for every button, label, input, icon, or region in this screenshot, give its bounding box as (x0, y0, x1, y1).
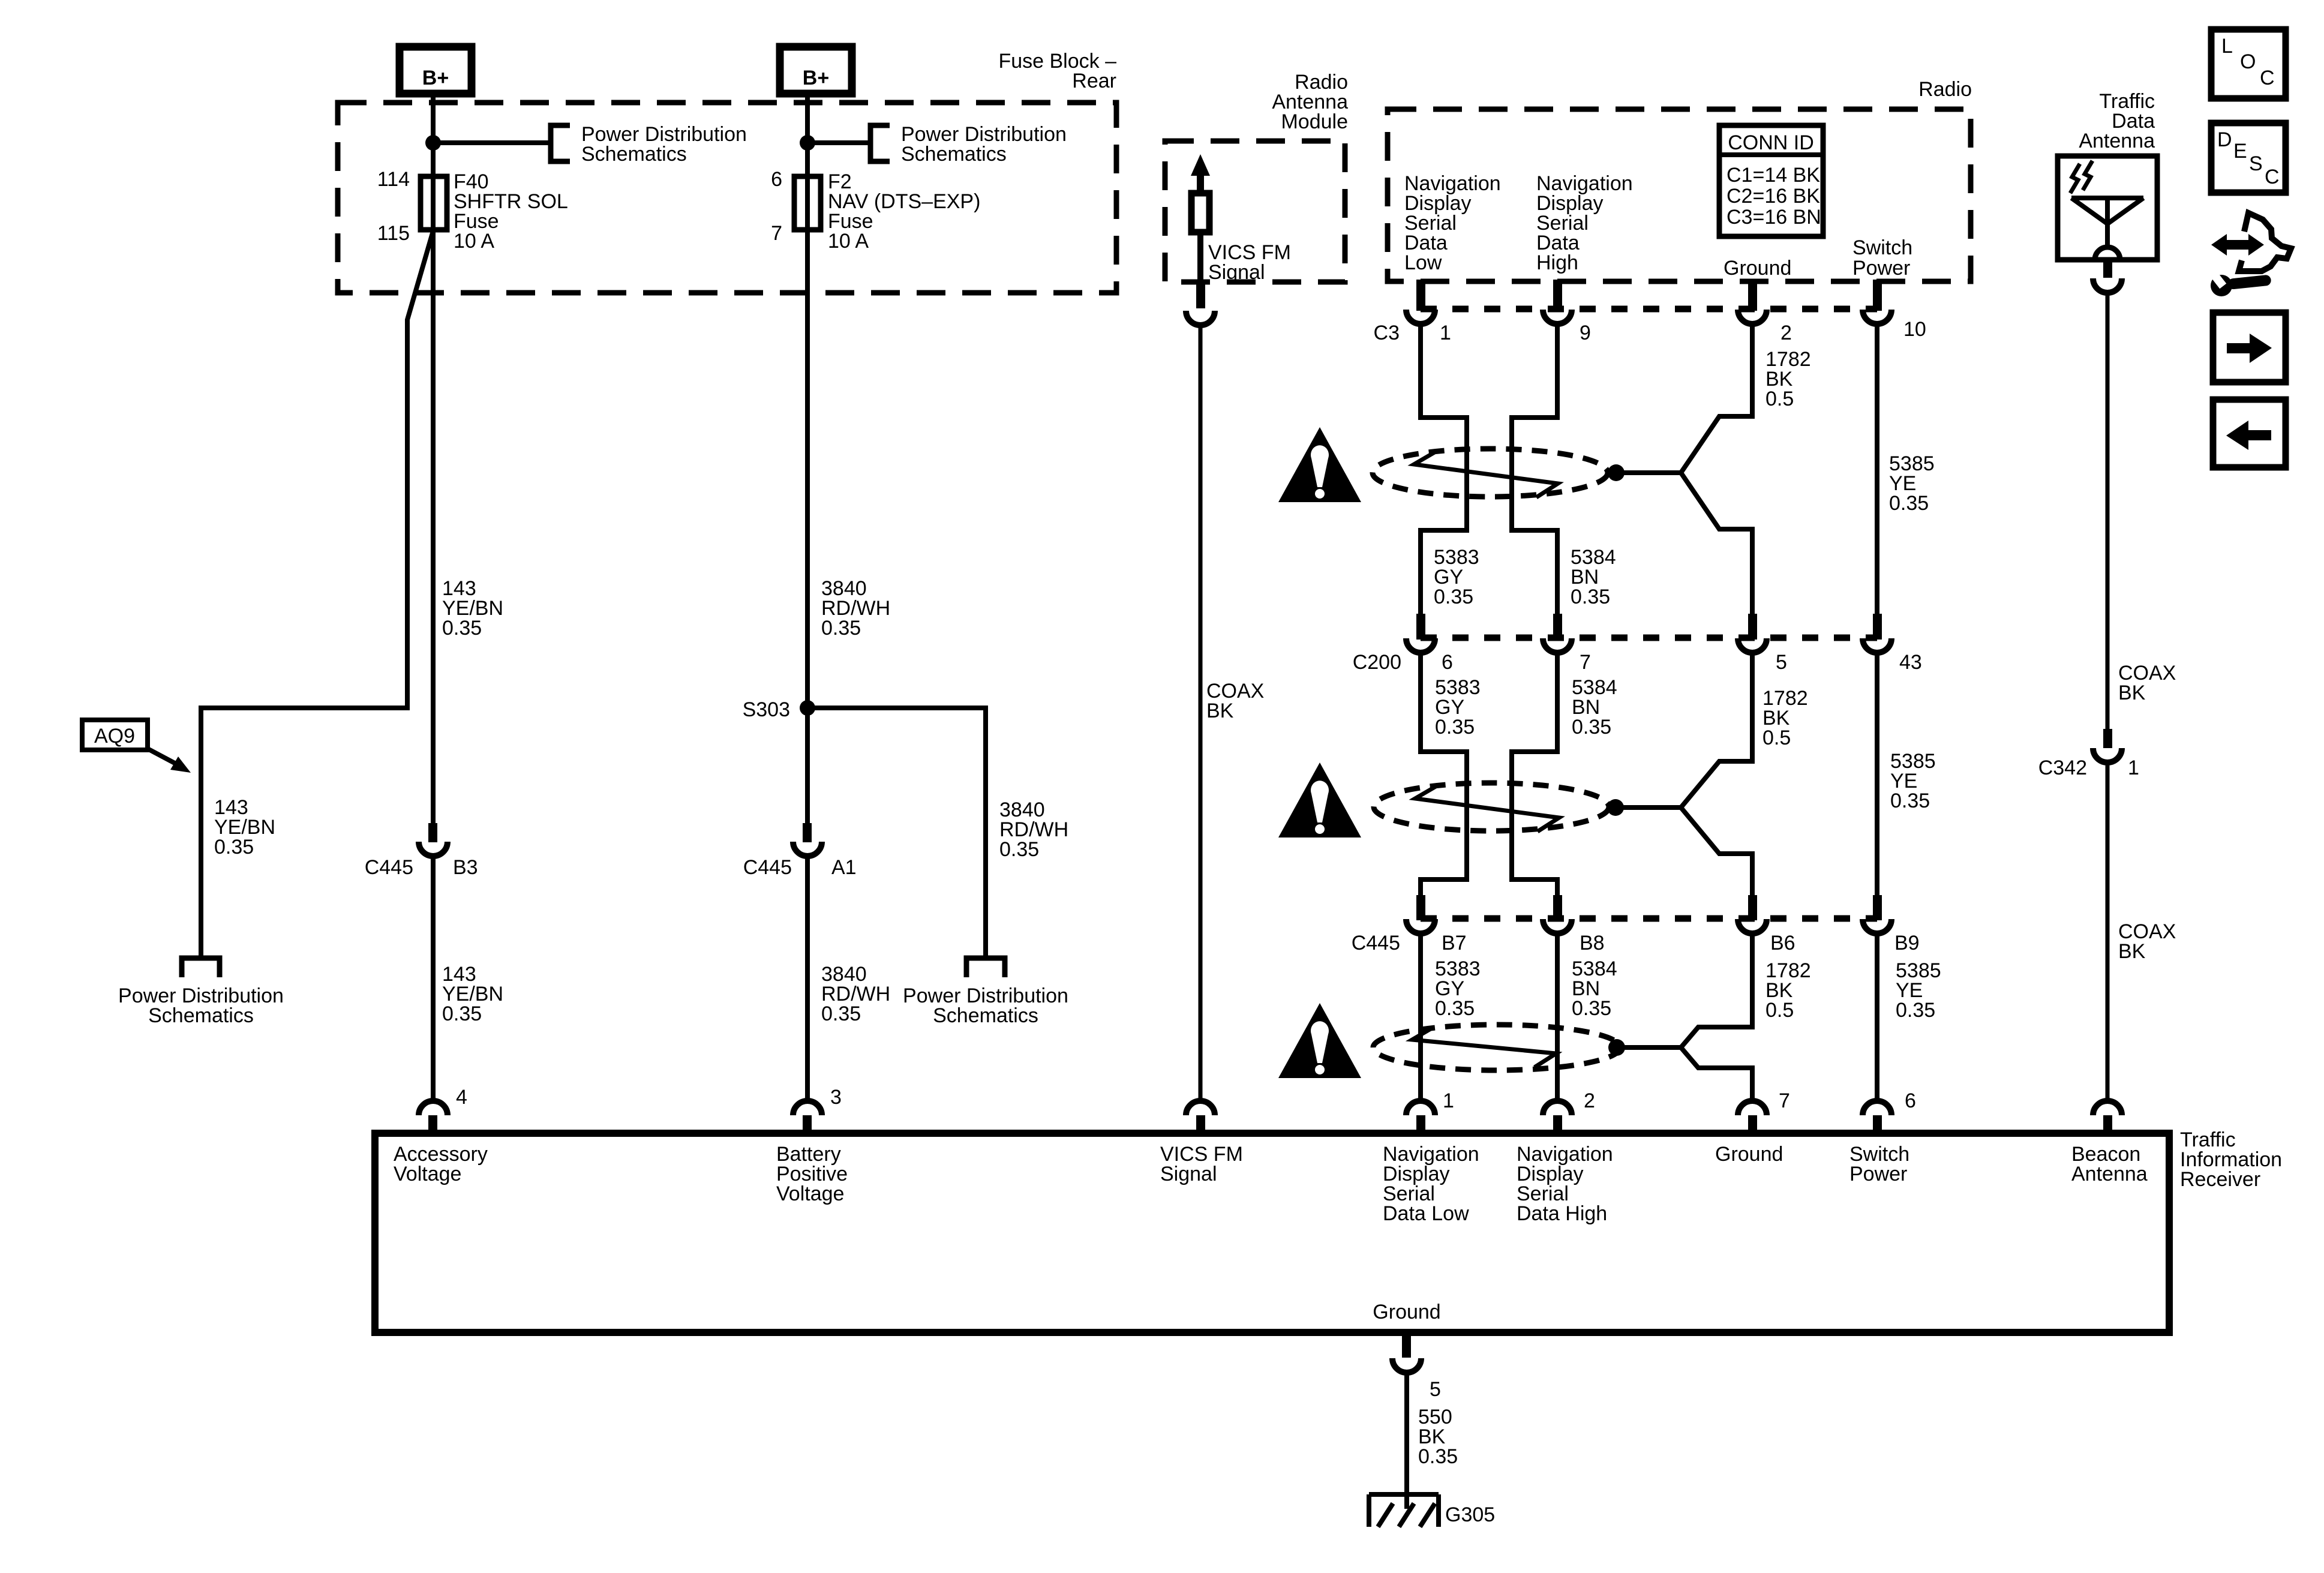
svg-text:C1=14 BK: C1=14 BK (1727, 164, 1820, 187)
wire label 5384 BN 0.35 (row 3) (1572, 957, 1617, 1020)
wire COAX BK vics fm signal (1199, 325, 1203, 1101)
wire 5385 YE C200 pin43 to C445 (1875, 653, 1879, 900)
wire COAX BK antenna to C342 (2106, 293, 2110, 729)
wire label 3840 RD/WH 0.35 (S303 branch) (999, 798, 1068, 861)
wire 5384 BN C200 pin7 to C445 (twisted) (1512, 653, 1557, 900)
svg-text:C: C (2260, 67, 2275, 89)
svg-text:7: 7 (771, 222, 782, 245)
wire label COAX BK (vics) (1206, 680, 1264, 722)
svg-text:0.5: 0.5 (1765, 388, 1794, 410)
svg-text:Ground: Ground (1724, 257, 1791, 280)
antenna signal source arrow inside module (1191, 154, 1210, 282)
svg-text:B3: B3 (453, 856, 478, 879)
svg-text:CONN ID: CONN ID (1728, 131, 1814, 154)
svg-text:Rear: Rear (1072, 70, 1116, 92)
svg-text:Radio: Radio (1918, 78, 1972, 101)
svg-text:0.5: 0.5 (1765, 999, 1794, 1022)
icon harness routing with double arrow (2211, 213, 2291, 271)
off-page bracket power distribution (AQ9 branch) (182, 958, 220, 977)
off-page bracket power distribution (S303 branch) (966, 958, 1005, 977)
junction node on B+2 feed (800, 135, 815, 151)
svg-text:1: 1 (1440, 322, 1451, 344)
svg-text:Schematics: Schematics (901, 143, 1007, 166)
node AQ9 callout box (82, 720, 191, 773)
svg-text:0.35: 0.35 (1890, 789, 1930, 812)
wire 1782 BK radio pin2 to C200 with shield drain (1681, 324, 1752, 620)
off-page bracket power distribution 2 (870, 125, 890, 161)
wire label 5383 GY 0.35 (row 1) (1434, 546, 1479, 608)
twisted pair shield ellipse 2 (1374, 783, 1609, 831)
svg-text:S303: S303 (743, 698, 790, 721)
svg-text:6: 6 (771, 168, 782, 191)
wire 3840 RD/WH C445 to receiver pin 3 (805, 856, 810, 1101)
svg-text:6: 6 (1905, 1089, 1916, 1112)
wire 143 YE/BN C445 to receiver pin 4 (431, 856, 436, 1101)
svg-text:C445: C445 (743, 856, 792, 879)
splice dot on shield 3 (1608, 1039, 1625, 1056)
svg-text:Signal: Signal (1208, 261, 1265, 284)
svg-text:Low: Low (1404, 251, 1442, 274)
wire label COAX BK (upper) (2118, 662, 2176, 704)
svg-text:10: 10 (1903, 318, 1926, 341)
wire label 143 YE/BN 0.35 (lower) (442, 963, 503, 1025)
splice S303 (800, 700, 815, 716)
icon wrench (2207, 268, 2271, 296)
label Radio Antenna Module (1272, 71, 1348, 133)
svg-text:0.35: 0.35 (1571, 586, 1610, 608)
wire label 1782 BK 0.5 (upper) (1765, 348, 1811, 410)
svg-text:B+: B+ (422, 67, 449, 89)
svg-text:S: S (2249, 152, 2263, 175)
receiver pin 6 terminal (1863, 1089, 1916, 1133)
svg-text:3: 3 (830, 1086, 842, 1109)
svg-text:Antenna: Antenna (2071, 1163, 2148, 1185)
wire label 5385 YE 0.35 (row 3) (1896, 959, 1941, 1022)
wire 5383 GY C445 B7 to receiver pin 1 (1418, 933, 1423, 1101)
radio pin label switch power (1852, 236, 1912, 280)
wire branch to power distribution (right) (807, 140, 870, 145)
svg-text:0.35: 0.35 (442, 617, 482, 640)
connector C342 pin 1 (2038, 729, 2139, 779)
svg-text:5: 5 (1776, 651, 1787, 674)
svg-text:0.35: 0.35 (1435, 716, 1475, 739)
connector C445 row (B pins) (1352, 895, 1920, 954)
power symbol B+ (battery feed 2) (780, 47, 852, 94)
svg-text:E: E (2233, 140, 2247, 163)
svg-text:4: 4 (456, 1086, 467, 1109)
receiver ground pin 5 terminal (1392, 1332, 1441, 1401)
wire B+2 to fuse F2 (805, 94, 810, 823)
label Traffic Information Receiver (2180, 1128, 2282, 1191)
svg-text:2: 2 (1584, 1089, 1595, 1112)
off-page bracket power distribution 1 (551, 125, 570, 161)
svg-text:114: 114 (377, 168, 410, 191)
label Fuse Block - Rear (998, 50, 1116, 92)
svg-text:Data High: Data High (1517, 1202, 1607, 1225)
svg-text:Schematics: Schematics (581, 143, 687, 166)
wire label 1782 BK 0.5 (row 3) (1765, 959, 1811, 1022)
traffic information receiver box (375, 1133, 2169, 1332)
svg-text:43: 43 (1899, 651, 1922, 674)
svg-text:C3: C3 (1374, 322, 1400, 344)
radio antenna module dashed box (1165, 141, 1345, 282)
ground G305 symbol (1369, 1494, 1439, 1527)
svg-text:0.35: 0.35 (1896, 999, 1935, 1022)
receiver pin 4 terminal (419, 1086, 467, 1133)
svg-text:D: D (2217, 128, 2232, 151)
svg-text:Signal: Signal (1160, 1163, 1217, 1185)
twisted pair shield ellipse 1 (1373, 449, 1608, 497)
svg-text:C342: C342 (2038, 757, 2087, 779)
wire label 5385 YE 0.35 (row 2) (1890, 750, 1936, 812)
icon back arrow (2213, 400, 2286, 467)
receiver pin 7 terminal (1738, 1089, 1790, 1133)
power symbol B+ (battery feed 1) (400, 47, 472, 94)
svg-text:B8: B8 (1580, 932, 1605, 954)
wire label 3840 RD/WH 0.35 (lower) (821, 963, 890, 1025)
svg-text:0.35: 0.35 (1889, 492, 1929, 515)
svg-text:B+: B+ (803, 67, 829, 89)
svg-text:0.35: 0.35 (214, 836, 254, 858)
connector C445 A1 (in-line) (743, 823, 857, 879)
svg-text:0.35: 0.35 (999, 838, 1039, 861)
svg-text:0.35: 0.35 (1572, 997, 1611, 1020)
svg-text:Ground: Ground (1715, 1143, 1783, 1166)
svg-text:10 A: 10 A (828, 230, 869, 253)
wire 5383 GY radio pin1 to C200 (twisted) (1421, 324, 1467, 620)
wire S303 branch to power distribution (807, 708, 986, 958)
wire 1782 BK C445 B6 to receiver pin 7 with shield drain (1681, 933, 1752, 1101)
connector C3 row (radio harness) (1374, 280, 1926, 344)
wire 5385 YE C445 B9 to receiver pin 6 (1875, 933, 1879, 1101)
svg-text:BK: BK (1206, 700, 1234, 722)
receiver pin 1 terminal (1406, 1089, 1454, 1133)
twisted pair shield ellipse 3 (1373, 1025, 1620, 1070)
radio pin label navigation display serial data low (1404, 172, 1501, 274)
wire label 143 YE/BN 0.35 (AQ9 branch) (214, 796, 275, 858)
icon DESC (2211, 123, 2286, 193)
wire label 5383 GY 0.35 (row 2) (1435, 676, 1481, 739)
warning triangle 2 (1278, 763, 1361, 837)
traffic data antenna box (2058, 156, 2157, 260)
wire label 5384 BN 0.35 (row 1) (1571, 546, 1616, 608)
svg-text:Data Low: Data Low (1383, 1202, 1469, 1225)
module output terminal (1186, 282, 1215, 325)
svg-text:10 A: 10 A (454, 230, 494, 253)
svg-text:0.35: 0.35 (442, 1002, 482, 1025)
svg-text:0.35: 0.35 (1572, 716, 1611, 739)
twist symbol 3 (1412, 1027, 1556, 1067)
svg-text:C200: C200 (1353, 651, 1401, 674)
svg-text:C445: C445 (1352, 932, 1400, 954)
splice dot on shield 1 (1608, 464, 1625, 481)
svg-text:Module: Module (1281, 110, 1348, 133)
svg-text:C445: C445 (365, 856, 413, 879)
wire drain to twisted pair shield 2 (1616, 805, 1681, 810)
svg-text:A1: A1 (831, 856, 857, 879)
svg-text:Voltage: Voltage (776, 1182, 844, 1205)
label VICS FM Signal (module) (1208, 241, 1291, 284)
receiver pin name labels (394, 1143, 2148, 1323)
svg-text:C3=16 BN: C3=16 BN (1727, 206, 1821, 229)
svg-text:7: 7 (1779, 1089, 1790, 1112)
svg-text:0.35: 0.35 (1434, 586, 1473, 608)
receiver VICS FM terminal (1186, 1101, 1215, 1133)
twist symbol 2 (1415, 786, 1559, 831)
receiver pin 3 terminal (793, 1086, 842, 1133)
wire drain to twisted pair shield 1 (1616, 470, 1681, 475)
icon forward arrow (2213, 313, 2286, 382)
radio pin label navigation display serial data high (1536, 172, 1633, 274)
wire label 3840 RD/WH 0.35 (upper) (821, 577, 890, 640)
antenna output terminal (2093, 260, 2122, 293)
wire label 5385 YE 0.35 (row 1) (1889, 452, 1935, 515)
wire label 5384 BN 0.35 (row 2) (1572, 676, 1617, 739)
svg-text:Schematics: Schematics (148, 1004, 254, 1027)
wire COAX BK C342 to receiver beacon antenna (2106, 763, 2110, 1101)
warning triangle 1 (1278, 427, 1361, 502)
svg-text:0.35: 0.35 (821, 617, 861, 640)
svg-text:BK: BK (2118, 940, 2146, 963)
svg-text:Switch: Switch (1852, 236, 1912, 259)
radio dashed box (1388, 109, 1971, 281)
svg-text:Voltage: Voltage (394, 1163, 461, 1185)
svg-text:C: C (2265, 166, 2280, 188)
connector C445 B3 (in-line) (365, 823, 478, 879)
svg-text:2: 2 (1780, 322, 1792, 344)
svg-text:0.5: 0.5 (1762, 727, 1791, 749)
svg-text:B6: B6 (1770, 932, 1795, 954)
wire 550 BK receiver to G305 (1404, 1373, 1409, 1509)
wire label 143 YE/BN 0.35 (upper) (442, 577, 503, 640)
svg-text:Antenna: Antenna (2079, 130, 2155, 152)
wire label 550 BK 0.35 (1418, 1406, 1458, 1468)
svg-text:0.35: 0.35 (821, 1002, 861, 1025)
svg-text:1: 1 (1443, 1089, 1454, 1112)
wire label 5383 GY 0.35 (row 3) (1435, 957, 1481, 1020)
wire label COAX BK (lower) (2118, 920, 2176, 963)
splice dot on shield 2 (1607, 799, 1624, 816)
svg-text:7: 7 (1580, 651, 1591, 674)
svg-text:C2=16 BK: C2=16 BK (1727, 185, 1820, 208)
svg-text:G305: G305 (1445, 1503, 1495, 1526)
wire 5385 YE radio pin10 to C200 (1875, 324, 1879, 620)
wire 5383 GY C200 pin6 to C445 (twisted) (1421, 653, 1467, 900)
wire branch to power distribution (left) (433, 140, 551, 145)
wire 5384 BN C445 B8 to receiver pin 2 (1555, 933, 1560, 1101)
svg-text:Power: Power (1852, 257, 1910, 280)
svg-text:0.35: 0.35 (1418, 1445, 1458, 1468)
warning triangle 3 (1278, 1003, 1361, 1078)
svg-text:O: O (2240, 50, 2256, 73)
wire 5384 BN radio pin9 to C200 (twisted) (1512, 324, 1557, 620)
traffic data antenna label (2079, 90, 2155, 152)
svg-text:9: 9 (1580, 322, 1591, 344)
svg-text:Ground: Ground (1373, 1301, 1440, 1323)
icon LOC (2211, 29, 2286, 98)
fuse F2 NAV (DTS-EXP) 10A (771, 168, 980, 253)
svg-text:High: High (1536, 251, 1578, 274)
svg-text:5: 5 (1430, 1378, 1441, 1401)
twist symbol 1 (1414, 452, 1558, 497)
fuse F40 SHFTR SOL 10A (377, 168, 568, 253)
svg-text:AQ9: AQ9 (94, 725, 135, 748)
wire B+1 to fuse F40 (431, 94, 436, 823)
wire 1782 BK C200 pin5 to C445 with shield drain (1681, 653, 1752, 900)
receiver beacon antenna terminal (2093, 1101, 2122, 1133)
wire drain to twisted pair shield 3 (1617, 1045, 1681, 1050)
receiver pin 2 terminal (1543, 1089, 1595, 1133)
junction node on B+1 feed (425, 135, 441, 151)
svg-text:1: 1 (2128, 757, 2139, 779)
svg-text:6: 6 (1442, 651, 1453, 674)
svg-text:BK: BK (2118, 682, 2146, 704)
fuse block - rear dashed box (338, 103, 1116, 293)
svg-text:B9: B9 (1894, 932, 1920, 954)
svg-text:115: 115 (377, 222, 410, 245)
svg-text:B7: B7 (1442, 932, 1467, 954)
connector C200 row (1353, 614, 1922, 674)
CONN ID table (1719, 125, 1823, 236)
svg-text:Schematics: Schematics (933, 1004, 1038, 1027)
wire label 1782 BK 0.5 (row 2) (1762, 687, 1808, 749)
svg-text:Receiver: Receiver (2180, 1168, 2260, 1191)
svg-text:0.35: 0.35 (1435, 997, 1475, 1020)
wire AQ9 branch from fuse 115 (201, 231, 433, 958)
svg-text:Power: Power (1849, 1163, 1907, 1185)
svg-text:L: L (2221, 35, 2233, 58)
